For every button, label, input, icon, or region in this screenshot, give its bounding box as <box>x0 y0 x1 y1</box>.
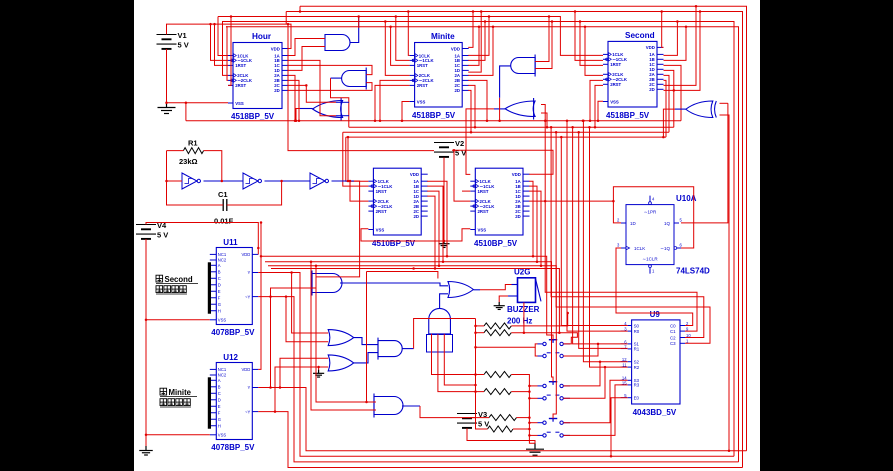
svg-text:S0: S0 <box>634 323 640 328</box>
wire gH out red <box>480 285 512 290</box>
wire r2b right <box>511 333 577 344</box>
svg-text:C1: C1 <box>218 190 228 199</box>
svg-text:∼1Q: ∼1Q <box>660 246 670 251</box>
svg-text:C: C <box>218 391 221 396</box>
AND gate gL <box>378 338 402 360</box>
wire sw3 left <box>529 385 537 387</box>
node j96 <box>472 10 475 13</box>
resistor R2b <box>484 330 511 336</box>
battery V2 <box>434 139 466 158</box>
wire u10a fb <box>613 187 693 248</box>
node j36 <box>551 20 554 23</box>
svg-text:B: B <box>218 384 221 389</box>
wire gC in stub2 <box>336 115 349 117</box>
wire second 1b feed <box>664 27 687 61</box>
svg-text:1CLK: 1CLK <box>634 246 645 251</box>
node jswl <box>474 346 477 349</box>
node j103 <box>470 131 473 134</box>
switch J3 <box>538 382 571 388</box>
node j86 <box>610 455 613 458</box>
node j100 <box>492 25 495 28</box>
wire C1 right lead <box>227 181 282 205</box>
wire u11 vss <box>146 319 210 321</box>
wire gC in stubs <box>336 101 349 103</box>
wire gD in2 <box>535 22 552 69</box>
node j38 <box>544 119 547 122</box>
wire r2b left <box>476 332 485 334</box>
svg-text:74LS74D: 74LS74D <box>676 267 710 276</box>
wire gE in2 <box>541 113 547 127</box>
node j2b <box>612 200 615 203</box>
switch J5 <box>538 419 571 425</box>
svg-text:4518BP_5V: 4518BP_5V <box>412 111 456 120</box>
node j89 <box>442 261 445 264</box>
wire sw3 right <box>563 362 600 386</box>
node j63 <box>257 247 260 250</box>
svg-text:Hour: Hour <box>252 32 272 41</box>
svg-text:F: F <box>218 295 221 300</box>
label tag-Second-2 <box>156 286 187 294</box>
inverter U-inv2 <box>243 173 261 189</box>
wire minite vss <box>402 102 410 121</box>
node j43 <box>589 119 592 122</box>
wire m3 left drop <box>343 132 369 186</box>
wire buzzer gnd wire <box>499 296 508 302</box>
svg-text:VSS: VSS <box>235 101 244 106</box>
wire minite 2c <box>468 85 475 127</box>
svg-text:VSS: VSS <box>478 227 487 232</box>
wire hour 1b to gC <box>289 60 337 115</box>
svg-text:~Y: ~Y <box>245 294 250 299</box>
node j85 <box>604 366 607 369</box>
wire minite 1a <box>468 17 489 56</box>
node j65 <box>290 271 293 274</box>
svg-text:∼1CLR: ∼1CLR <box>642 257 658 262</box>
wire bund5 <box>567 121 628 331</box>
svg-text:VSS: VSS <box>218 433 227 438</box>
wire hour n2clk feed <box>226 27 228 81</box>
node j53 <box>555 131 558 134</box>
svg-text:~Y: ~Y <box>245 409 250 414</box>
IC counter U-4510-2 <box>470 168 529 248</box>
wire 4510-2 2a to u10a <box>529 200 613 202</box>
wire sw rail <box>511 375 535 444</box>
node j81 <box>528 428 531 431</box>
battery V3 <box>457 410 489 429</box>
wire second 2rst <box>595 85 603 127</box>
wire res left rail <box>476 319 488 430</box>
wire sw6 right <box>563 385 627 436</box>
ground GND-V1 <box>158 102 176 114</box>
wire osc input <box>167 180 183 182</box>
wire minite 2a <box>468 27 493 76</box>
wire r2a left <box>476 325 485 327</box>
wire minite 2clk feed <box>385 22 409 76</box>
wire minite n1clk feed <box>396 17 410 61</box>
wire 4510-1 1a <box>427 181 447 256</box>
wire inv2-inv3 blue <box>265 180 311 182</box>
node j52 <box>550 126 553 129</box>
wire gM out red <box>420 406 476 418</box>
wire bund7 <box>579 132 628 348</box>
wire osc to gG <box>316 181 360 277</box>
wire gK out <box>354 353 378 363</box>
svg-text:Minite: Minite <box>169 388 192 397</box>
wire inv3 out up <box>347 137 349 181</box>
wire u11 ny <box>258 297 738 462</box>
node j5 <box>299 10 302 13</box>
node j84 <box>599 360 602 363</box>
wire V1 top to bus <box>167 24 292 48</box>
svg-text:VDD: VDD <box>646 45 655 50</box>
latch U9 <box>621 310 692 417</box>
wire sw1 left <box>476 344 538 347</box>
svg-text:1RST: 1RST <box>376 189 387 194</box>
svg-text:VDD: VDD <box>271 46 280 51</box>
node j92 <box>532 255 535 258</box>
wire 4510-2 1rst <box>462 190 470 192</box>
node j67 <box>279 386 282 389</box>
wire 4510-1 1b <box>427 186 443 262</box>
node j70 <box>310 261 313 264</box>
node j94 <box>540 265 543 268</box>
svg-text:NC1: NC1 <box>218 252 227 257</box>
wire V4 top <box>146 223 258 255</box>
svg-text:1Q: 1Q <box>664 221 671 226</box>
wire osc fb left rail <box>167 151 224 205</box>
node j102 <box>474 126 477 129</box>
wire second 2c <box>664 6 697 85</box>
wire R1 left lead <box>167 150 184 152</box>
wire sw5 right <box>563 380 627 422</box>
node j55 <box>566 119 569 122</box>
wire R1 right lead <box>204 151 222 181</box>
node j71 <box>317 366 320 369</box>
label C1 value <box>214 217 234 226</box>
wire t1 supply <box>288 24 434 151</box>
node j4 <box>287 23 290 26</box>
wire top bus y21 <box>222 22 734 457</box>
svg-text:V1: V1 <box>178 31 187 40</box>
OR gate gH <box>448 282 473 298</box>
wire mh1 <box>261 256 553 339</box>
wire sw2 left <box>535 347 537 356</box>
wire top bus y26 <box>226 27 739 462</box>
svg-text:VDD: VDD <box>512 172 521 177</box>
wire hour 2rst feed <box>228 17 231 86</box>
gI input bracket <box>427 335 453 353</box>
svg-text:E: E <box>218 404 221 409</box>
ground GND-SW <box>526 443 544 455</box>
wire u10a clk src <box>616 248 693 326</box>
svg-text:200 Hz: 200 Hz <box>507 317 532 326</box>
svg-text:2D: 2D <box>274 88 280 93</box>
node j66 <box>285 295 288 298</box>
node j79 <box>528 390 531 393</box>
node j23 <box>221 180 224 183</box>
node j74 <box>474 373 477 376</box>
wire hour 2b down <box>289 80 300 120</box>
svg-text:4518BP_5V: 4518BP_5V <box>231 112 275 121</box>
wire minite 1rst feed <box>391 27 410 66</box>
node j97 <box>488 15 491 18</box>
node j99 <box>478 25 481 28</box>
wire second 2clk <box>585 27 603 76</box>
wire minite 1c <box>468 27 479 66</box>
node jr2b <box>558 331 561 334</box>
svg-text:VDD: VDD <box>410 172 419 177</box>
svg-text:R1: R1 <box>634 347 640 352</box>
wire gnd gates stem <box>318 367 320 370</box>
svg-text:G: G <box>218 302 221 307</box>
svg-text:V2: V2 <box>455 139 464 148</box>
IC U12 <box>208 353 258 452</box>
wire u11 y <box>258 273 734 457</box>
wire hour 1d to gA <box>289 47 326 71</box>
svg-text:BUZZER: BUZZER <box>507 305 540 314</box>
wire gE out <box>466 109 494 174</box>
svg-text:A: A <box>218 263 221 268</box>
AND gate gD <box>511 55 535 77</box>
node j40 <box>574 10 577 13</box>
resistor R2a <box>484 323 511 329</box>
node j51 <box>728 449 731 452</box>
node j72 <box>474 325 477 328</box>
wire V2 bottom <box>443 158 445 241</box>
svg-text:2D: 2D <box>414 214 420 219</box>
wire gJ in1 <box>292 273 329 334</box>
node jlink <box>269 386 272 389</box>
node j21 <box>295 119 298 122</box>
wire gJ in2 <box>286 297 328 342</box>
wire second 1a feed <box>664 22 678 56</box>
node j35 <box>548 15 551 18</box>
wire v3 top <box>470 417 489 419</box>
wire gG in2 <box>271 288 317 297</box>
switch J4 <box>538 395 571 400</box>
node jmh1 <box>260 255 263 258</box>
wire bund1 <box>545 121 697 331</box>
wire hour 1c to gB <box>289 65 373 74</box>
svg-text:4510BP_5V: 4510BP_5V <box>372 239 416 248</box>
wire gF out blue <box>675 108 686 110</box>
node j42 <box>584 25 587 28</box>
svg-text:1RST: 1RST <box>610 62 621 67</box>
svg-text:E: E <box>218 289 221 294</box>
wire bund3 <box>556 132 710 343</box>
node j69 <box>315 265 318 268</box>
wire top bus y16 <box>218 17 603 56</box>
node j88 <box>446 255 449 258</box>
node j28 <box>443 240 446 243</box>
wire V1 bottom <box>166 49 168 103</box>
wire 4510-2 1a <box>529 181 533 256</box>
svg-text:5 V: 5 V <box>178 41 189 50</box>
wire sw4 right <box>563 367 605 398</box>
node j12 <box>395 15 398 18</box>
node j60 <box>145 319 148 322</box>
node j1 <box>165 102 168 105</box>
svg-text:C3: C3 <box>670 341 676 346</box>
svg-text:G: G <box>218 417 221 422</box>
inverter U-inv3 <box>310 173 328 189</box>
node j25 <box>347 180 350 183</box>
wire mid bus m3 <box>343 131 669 133</box>
wire mid bus m2 <box>349 126 674 128</box>
wire t1 supply right <box>452 150 553 174</box>
node j39 <box>546 126 549 129</box>
wire gG out blue <box>340 283 448 286</box>
wire minite 2rst feed <box>375 85 410 120</box>
svg-text:2RST: 2RST <box>235 83 246 88</box>
wire sw2 right <box>563 344 598 356</box>
wire gJ out <box>354 338 378 345</box>
wire mh4 <box>271 269 559 333</box>
wire hour n1clk feed <box>211 24 229 60</box>
buzzer U2G <box>507 268 541 326</box>
svg-text:2D: 2D <box>455 88 461 93</box>
wire hour 1clk feed <box>218 17 228 56</box>
wire minite 2b <box>468 80 487 120</box>
wire buzzer drop <box>523 302 525 332</box>
node j7 <box>685 25 688 28</box>
svg-text:H: H <box>218 423 221 428</box>
wire r5 right <box>517 417 530 419</box>
node j77 <box>566 312 569 315</box>
wire second 1c <box>664 65 682 120</box>
switch J6 <box>538 432 571 437</box>
svg-text:VDD: VDD <box>241 367 250 372</box>
svg-text:∼1PR: ∼1PR <box>644 210 657 215</box>
svg-text:C1: C1 <box>670 329 676 334</box>
node j11 <box>407 10 410 13</box>
svg-text:NC1: NC1 <box>218 367 227 372</box>
node j62 <box>260 221 263 224</box>
svg-text:2RST: 2RST <box>610 82 621 87</box>
wire 4510-1 1d <box>427 196 435 268</box>
wire sw4 left <box>529 397 537 399</box>
wire r2a right <box>511 313 567 326</box>
wire second n1clk <box>575 12 603 61</box>
wire y6 left drop <box>299 6 301 11</box>
wire top bus y6 <box>300 6 747 450</box>
svg-text:4518BP_5V: 4518BP_5V <box>606 111 650 120</box>
resistor R1 <box>183 148 203 154</box>
wire minite n2clk feed <box>380 80 410 120</box>
IC Hour counter <box>228 32 289 121</box>
wire m4 left drop <box>346 137 369 181</box>
node j13 <box>389 25 392 28</box>
svg-text:U12: U12 <box>223 353 238 362</box>
node j17 <box>357 15 360 18</box>
wire second n2clk <box>590 80 603 120</box>
node j93 <box>536 261 539 264</box>
node j48 <box>673 89 676 92</box>
wire inv1-inv2 blue <box>204 180 244 182</box>
wire VSS Hour rail <box>167 102 229 104</box>
ground GND-BUZZER <box>494 302 505 309</box>
wire minite 1d up <box>468 12 481 73</box>
OR gate gF <box>686 101 717 118</box>
switch J2 <box>538 353 571 358</box>
node jsw5 <box>528 421 531 424</box>
IC counter U-4510-1 <box>368 168 427 248</box>
wire mid bus m4 <box>346 136 666 138</box>
wire u12 ny <box>258 412 742 468</box>
node j6 <box>676 20 679 23</box>
node j57 <box>577 131 580 134</box>
node j15 <box>379 119 382 122</box>
wire bund2 <box>551 127 704 337</box>
node jext <box>365 401 368 404</box>
AND gate gI <box>429 308 451 334</box>
wire top bus y11 left drop <box>285 12 287 25</box>
svg-text:1RST: 1RST <box>417 63 428 68</box>
svg-text:4078BP_5V: 4078BP_5V <box>211 328 255 337</box>
node j91 <box>434 267 437 270</box>
node j54 <box>560 136 563 139</box>
node j19 <box>294 119 297 122</box>
wire second 1d <box>664 70 674 127</box>
capacitor C1 <box>223 199 227 211</box>
wire gM in2 <box>311 262 376 410</box>
wire hour 2d to gB <box>289 83 373 91</box>
node j16 <box>374 119 377 122</box>
wire hour 1rst feed <box>215 24 229 65</box>
wire minite vdd up <box>468 12 473 48</box>
node j75 <box>474 390 477 393</box>
ground GND-GATES <box>313 370 324 377</box>
wire u11ny-u12y link <box>270 297 272 388</box>
node j101 <box>486 119 489 122</box>
svg-text:D: D <box>218 397 221 402</box>
resistor R6 <box>488 426 514 432</box>
node j29 <box>453 149 456 152</box>
IC U11 <box>208 238 258 337</box>
wire gD out blue <box>500 66 511 98</box>
node j56 <box>571 126 574 129</box>
node j95 <box>480 10 483 13</box>
node j68 <box>274 410 277 413</box>
node jsw3 <box>528 385 531 388</box>
node j3 <box>660 10 663 13</box>
wire u11y ext <box>367 272 438 279</box>
node j37 <box>498 119 501 122</box>
battery V4 <box>136 221 168 240</box>
wire second 1rst <box>580 22 603 66</box>
svg-text:23kΩ: 23kΩ <box>179 157 198 166</box>
svg-text:S2: S2 <box>634 360 640 365</box>
wire v3 bottom <box>467 428 535 443</box>
node j87 <box>412 267 415 270</box>
wire gF out red <box>663 109 675 137</box>
node j18 <box>305 84 308 87</box>
wire u11y ext drop <box>366 272 368 403</box>
node j10 <box>230 15 233 18</box>
wire hour 2clk feed <box>222 22 228 76</box>
label tag-Minite-2 <box>160 399 191 407</box>
node j14 <box>384 20 387 23</box>
svg-text:Second: Second <box>165 275 193 284</box>
wire gI in1 <box>432 334 485 375</box>
wire gI in2 <box>438 334 484 392</box>
wire inv3 out blue <box>332 180 355 182</box>
node j9 <box>213 23 216 26</box>
node j20 <box>298 119 301 122</box>
wire gK in2 <box>275 367 328 412</box>
battery V1 <box>157 31 189 50</box>
wire second 2d <box>664 12 701 91</box>
